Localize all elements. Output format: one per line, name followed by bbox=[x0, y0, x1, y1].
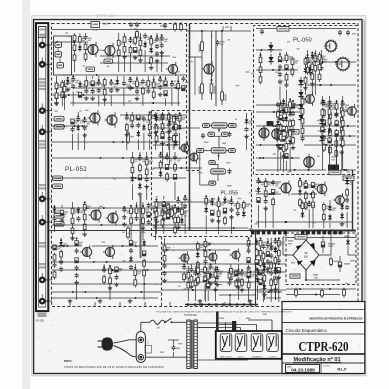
jack J8 speaker R bbox=[39, 294, 52, 304]
PL-050 upper component chain R87 bbox=[278, 52, 286, 100]
audio left component chain R108 bbox=[59, 238, 67, 272]
jack J6 tape out bbox=[39, 215, 52, 225]
transistor Q26 bbox=[207, 251, 218, 264]
wire bridge top bbox=[305, 229, 307, 240]
PCB outline main dashed box bbox=[52, 24, 359, 307]
FM IF left component chain R44 bbox=[161, 112, 165, 139]
audio right component chain R115 bbox=[247, 237, 251, 302]
transistor Q9 bbox=[106, 211, 119, 226]
title block model CTPR-620 bbox=[299, 340, 349, 355]
transformer label bbox=[184, 314, 197, 317]
PL-050 lower wire row bbox=[304, 144, 356, 146]
PL-050 lower component chain R93 bbox=[279, 100, 287, 170]
PCB outline PL-055 dashed box bbox=[152, 111, 252, 237]
audio right component chain R119 bbox=[277, 237, 285, 302]
AM tuner upper component chain R1 bbox=[73, 33, 76, 72]
AM tuner lower component chain R19 bbox=[90, 76, 98, 101]
left margin comps component chain R67 bbox=[54, 81, 59, 105]
hres H1 bbox=[288, 130, 299, 135]
FM IF mid wire row bbox=[52, 157, 186, 159]
transistor Q19 bbox=[304, 154, 314, 170]
pl55 right more component chain R162 bbox=[244, 113, 252, 150]
audio right wire row bbox=[162, 249, 230, 251]
PL-055 lower component chain R81 bbox=[216, 196, 224, 234]
panel label ANT AM-FM bbox=[39, 78, 45, 90]
title block modification bbox=[293, 357, 341, 363]
coil L2 bbox=[55, 52, 62, 58]
top hanging comps bbox=[103, 22, 182, 39]
B+ bus bbox=[120, 230, 356, 232]
jack J4 phono R bbox=[39, 125, 52, 135]
FM IF left wire row bbox=[52, 125, 88, 127]
label box LB1 bbox=[54, 117, 64, 130]
decoder vwire B bbox=[211, 31, 213, 100]
AM tuner lower component chain R17 bbox=[78, 81, 86, 98]
mains lower wire bbox=[145, 340, 186, 357]
AM tuner lower component chain R22 bbox=[109, 79, 117, 106]
audio bottom bus bbox=[185, 303, 258, 306]
PL-050 dense right component chain R158 bbox=[341, 96, 349, 170]
right mid lower band component chain R135 bbox=[340, 203, 345, 226]
AM tuner lower component chain R27 bbox=[141, 79, 149, 106]
audio lower right component chain R149 bbox=[262, 263, 270, 300]
power wires right bbox=[330, 229, 356, 255]
audio right wire row bbox=[162, 263, 286, 265]
audio lower right component chain R148 bbox=[255, 268, 259, 300]
PL-055 lower component chain R83 bbox=[229, 196, 237, 234]
audio lower right component chain R146 bbox=[229, 264, 237, 282]
PL-050 right upper component chain R90 bbox=[306, 50, 309, 75]
PL-050 dense mid component chain R152 bbox=[281, 98, 286, 172]
PL-055 lower component chain R78 bbox=[183, 195, 191, 234]
FM IF lower component chain R64 bbox=[166, 202, 174, 219]
PL-050 dense right component chain R157 bbox=[335, 101, 339, 171]
ground rail marks bbox=[68, 299, 253, 303]
FM IF left component chain R37 bbox=[82, 117, 90, 150]
AM tuner lower component chain R25 bbox=[128, 77, 136, 91]
audio right wire row bbox=[162, 289, 286, 291]
AM tuner upper wire row bbox=[100, 55, 170, 57]
note heading bbox=[64, 359, 72, 363]
transformer secondary wires bbox=[197, 323, 248, 360]
PL-055 left wire row bbox=[153, 167, 202, 169]
PL-050 lower wire row bbox=[300, 125, 356, 127]
FM IF left component chain R40 bbox=[136, 115, 144, 150]
sheet border bbox=[34, 20, 362, 374]
svg-text:TRILHAS EM LINHA GROSSA INDICA: TRILHAS EM LINHA GROSSA INDICAM LIGAÇÕES… bbox=[156, 310, 292, 313]
right mid component chain R100 bbox=[257, 178, 265, 228]
PL-055 lower component chain R79 bbox=[204, 195, 212, 234]
audio lower left component chain R138 bbox=[114, 267, 122, 286]
left margin comps component chain R68 bbox=[62, 80, 70, 110]
diode D8 bbox=[319, 116, 324, 127]
box filter 208 bbox=[277, 27, 289, 32]
FM IF mid component chain R50 bbox=[144, 152, 152, 200]
phono jack INPUT bbox=[235, 334, 247, 359]
bus vertical lower center bbox=[255, 231, 257, 307]
PL-055 left component chain R72 bbox=[160, 114, 168, 165]
top hanging comps D bbox=[223, 26, 231, 31]
PCB outline power-supply dashed box bbox=[286, 233, 356, 285]
right mid wire row bbox=[256, 181, 281, 183]
diode D601 bbox=[344, 236, 350, 246]
panel bottom bar bbox=[38, 313, 47, 318]
AM tuner upper wire row bbox=[62, 74, 186, 76]
FM IF lower component chain R60 bbox=[141, 202, 149, 240]
capacitor C603 bbox=[338, 256, 350, 272]
transformer primary bbox=[187, 320, 190, 369]
PL-050 lower component chain R99 bbox=[340, 100, 348, 170]
FM IF left component chain R43 bbox=[153, 112, 161, 150]
audio lower left wire row bbox=[52, 291, 161, 293]
AM tuner upper component chain R6 bbox=[129, 37, 137, 72]
audio left component chain R110 bbox=[129, 238, 137, 270]
PL-055 left wire row bbox=[153, 127, 200, 129]
AM tuner upper component chain R11 bbox=[155, 33, 163, 72]
audio under transistors component chain R123 bbox=[187, 266, 190, 301]
label PL-052 bbox=[65, 166, 87, 173]
PL-050 lower component chain R94 bbox=[284, 100, 292, 170]
right mid wire row bbox=[256, 221, 352, 223]
audio left wire row bbox=[52, 283, 161, 285]
output jack strip box bbox=[216, 331, 282, 359]
phono jack OUTPUT bbox=[267, 334, 279, 359]
right mid component chain R106 bbox=[345, 177, 353, 228]
PL-050 lower wire row bbox=[341, 169, 356, 171]
audio under transistors component chain R128 bbox=[235, 271, 243, 288]
audio under transistors component chain R124 bbox=[194, 266, 202, 301]
AM tuner lower component chain R31 bbox=[164, 76, 167, 106]
FM IF lower component chain R57 bbox=[122, 206, 130, 226]
tall pill P1 bbox=[127, 131, 130, 144]
PL-050 upper wire row bbox=[256, 69, 298, 71]
audio lower right component chain R141 bbox=[189, 264, 197, 289]
diode D4 bbox=[298, 77, 303, 88]
AM tuner lower wire row bbox=[52, 94, 140, 96]
PL-055 left wire row bbox=[153, 144, 179, 146]
audio lower right component chain R144 bbox=[208, 263, 216, 285]
dark label blob bbox=[267, 121, 274, 126]
transistor Q10 bbox=[179, 142, 190, 155]
hres H2 bbox=[329, 170, 341, 174]
top rail center bbox=[187, 30, 252, 32]
transistor Q22 bbox=[333, 193, 344, 207]
audio under transistors component chain R126 bbox=[213, 266, 221, 301]
audio lower left component chain R136 bbox=[102, 264, 106, 284]
AM tuner lower component chain R26 bbox=[135, 76, 143, 101]
phono jack SPEAKERS bbox=[251, 334, 263, 359]
AM tuner lower component chain R21 bbox=[102, 77, 107, 106]
power left strip component chain R122 bbox=[273, 238, 281, 300]
decoder vwire A bbox=[201, 31, 203, 100]
fuse F1 1A bbox=[150, 320, 165, 329]
top rail PL-050 bbox=[256, 28, 356, 30]
PL-050 lower component chain R95 bbox=[291, 100, 299, 150]
scan veil bbox=[34, 20, 362, 373]
decoder vwire C bbox=[221, 31, 223, 105]
audio left wire row bbox=[52, 245, 82, 247]
scattered value labels bbox=[54, 28, 350, 290]
wire bridge bottom bbox=[305, 270, 340, 281]
right mid component chain R103 bbox=[298, 178, 306, 208]
panel label PHONO bar bbox=[39, 242, 45, 248]
PL-050 right upper component chain R91 bbox=[314, 50, 322, 95]
decoder vertical wire bbox=[215, 31, 217, 106]
power under resistors bbox=[295, 288, 346, 299]
audio lower left wire row bbox=[52, 269, 161, 271]
FM IF left component chain R38 bbox=[125, 112, 133, 150]
AM tuner lower component chain R34 bbox=[181, 76, 185, 91]
diode D1 bbox=[268, 42, 273, 53]
IF row boxes bbox=[197, 123, 236, 185]
right mid component chain R102 bbox=[271, 180, 279, 228]
switch link bbox=[145, 341, 152, 353]
connector dark feed bbox=[216, 312, 219, 332]
wire feed INPUT bbox=[197, 328, 240, 332]
tall pill P2 bbox=[127, 226, 130, 239]
AM tuner lower wire row bbox=[70, 102, 180, 104]
transformer secondary bbox=[194, 320, 197, 369]
transistor Q2 bbox=[103, 43, 116, 58]
diode D7 bbox=[298, 112, 303, 123]
switch contact row A bbox=[251, 231, 287, 235]
audio lower left component chain R137 bbox=[108, 265, 116, 300]
FM IF lower component chain R58 bbox=[130, 205, 138, 240]
transistor Q4 bbox=[202, 62, 215, 77]
AM tuner lower component chain R28 bbox=[146, 76, 154, 94]
audio right component chain R117 bbox=[261, 244, 269, 302]
PL-050 dense right component chain R154 bbox=[301, 96, 309, 142]
capacitor C602 2200uF bbox=[321, 236, 335, 253]
scan speckle bbox=[36, 21, 363, 371]
PL-050 lower wire row bbox=[256, 144, 284, 146]
transistor Q17 bbox=[272, 126, 282, 142]
left margin comps3 component chain R69 bbox=[53, 205, 61, 232]
heavy grey bus bbox=[140, 196, 142, 258]
FM IF mid component chain R51 bbox=[159, 152, 167, 178]
transistor Q11 bbox=[188, 151, 199, 164]
PL-055 lower component chain R82 bbox=[223, 196, 231, 226]
PL-050 lower component chain R98 bbox=[334, 100, 338, 170]
PL-050 upper component chain R86 bbox=[259, 52, 262, 84]
audio lower right wire row bbox=[162, 271, 286, 273]
wire bridge right bbox=[286, 238, 356, 256]
PL-055 left component chain R73 bbox=[168, 113, 176, 165]
wire audio verticals bbox=[70, 302, 250, 307]
coil L2b bbox=[57, 48, 64, 69]
FM IF lower component chain R65 bbox=[174, 204, 182, 234]
PL-050 upper component chain R88 bbox=[285, 52, 293, 100]
top rail PL-052 bbox=[52, 29, 186, 31]
transistor Q16 bbox=[259, 125, 269, 141]
AM tuner lower wire row bbox=[74, 87, 186, 89]
audio lower left component chain R139 bbox=[134, 264, 142, 287]
label PL-055 bbox=[221, 190, 239, 196]
transistor Q15 bbox=[303, 92, 314, 106]
capacitor across mains bbox=[160, 343, 183, 353]
audio right component chain R113 bbox=[196, 241, 204, 275]
PL-050 dense mid wire row bbox=[256, 111, 300, 113]
panel label TAPE bbox=[39, 184, 45, 190]
top hanging box A bbox=[91, 22, 100, 31]
AM tuner lower component chain R18 bbox=[84, 76, 92, 100]
decoder resistor CB2 bbox=[199, 82, 204, 95]
audio right component chain R116 bbox=[255, 238, 259, 277]
title block banner bbox=[310, 315, 363, 320]
PL-050 right col component chain R160 bbox=[310, 52, 318, 95]
diode D3 bbox=[307, 65, 312, 76]
PL-055 lower wire row bbox=[153, 201, 212, 203]
PCB outline lower-left dashed edge bbox=[161, 237, 163, 307]
PL-055 lower wire row bbox=[153, 227, 248, 229]
right mid lower band component chain R133 bbox=[322, 202, 330, 228]
audio under transistors component chain R125 bbox=[207, 271, 215, 301]
PCB outline PL-050 dashed box bbox=[254, 26, 358, 175]
AM tuner upper wire row bbox=[52, 41, 88, 43]
diode D6 bbox=[298, 101, 303, 112]
FM IF mid component chain R53 bbox=[173, 152, 181, 200]
audio under transistors component chain R127 bbox=[228, 269, 236, 285]
audio left component chain R111 bbox=[142, 239, 146, 300]
coil shield box bbox=[54, 36, 72, 75]
AM tuner upper component chain R2 bbox=[78, 33, 86, 52]
wire feed OUTPUT bbox=[248, 320, 272, 331]
audio right wire row bbox=[162, 243, 258, 245]
AM tuner upper component chain R10 bbox=[149, 35, 157, 70]
PL-050 dense right wire row bbox=[300, 135, 356, 137]
PL-050 lower component chain R97 bbox=[328, 100, 336, 155]
transistor Q14 bbox=[335, 57, 351, 72]
decoder junction bbox=[201, 30, 223, 81]
audio under transistors component chain R129 bbox=[240, 269, 248, 292]
decoder capacitor bbox=[216, 40, 225, 46]
audio left component chain R107 bbox=[53, 245, 61, 280]
diode D5 bbox=[298, 89, 303, 100]
AM tuner lower component chain R33 bbox=[177, 76, 180, 106]
audio under transistors component chain R130 bbox=[247, 266, 255, 290]
IF row connecting wires bbox=[197, 126, 232, 187]
audio lower right component chain R140 bbox=[182, 264, 190, 282]
label box LB3 bbox=[54, 214, 64, 227]
diode D2 bbox=[268, 54, 273, 65]
FM IF left wire row bbox=[120, 114, 186, 116]
FM IF left component chain R45 bbox=[167, 112, 175, 150]
AM tuner lower component chain R29 bbox=[152, 76, 160, 100]
PL-050 dense right component chain R156 bbox=[328, 96, 336, 170]
FM IF left component chain R47 bbox=[178, 112, 186, 150]
PL-050 lower wire row bbox=[256, 125, 284, 127]
audio lower right component chain R142 bbox=[197, 264, 205, 285]
AM tuner lower component chain R30 bbox=[158, 76, 166, 97]
FM IF mid component chain R49 bbox=[138, 152, 146, 196]
bus vertical right bbox=[352, 170, 354, 231]
power under wires bbox=[286, 288, 356, 296]
power left strip component chain R121 bbox=[266, 238, 274, 274]
audio lower right wire row bbox=[162, 281, 255, 283]
transistor Q25 bbox=[179, 252, 190, 265]
dark junction block bbox=[232, 321, 236, 331]
thermal box bbox=[290, 274, 300, 278]
transistor Q27 bbox=[230, 249, 241, 262]
title block drafter bbox=[321, 363, 347, 374]
FM IF lower component chain R61 bbox=[147, 203, 155, 226]
AM tuner lower component chain R23 bbox=[115, 76, 120, 92]
AM tuner upper component chain R9 bbox=[143, 33, 151, 72]
transistor Q23 bbox=[80, 245, 92, 259]
transformer core bbox=[191, 320, 192, 369]
transistor Q7 bbox=[105, 113, 118, 128]
title block outer box bbox=[282, 302, 365, 374]
PL-050 right upper wire row bbox=[305, 84, 356, 86]
panel label PL-051 bbox=[36, 319, 45, 323]
decoder resistor CB3 bbox=[210, 82, 216, 95]
switch contact row B bbox=[301, 231, 342, 235]
phono jack LINE OUTPUT bbox=[220, 334, 233, 359]
FM IF lower component chain R56 bbox=[82, 201, 90, 236]
wire feed LINE OUTPUT bbox=[141, 322, 226, 331]
FM IF mid component chain R48 bbox=[130, 152, 138, 200]
wire bridge left bbox=[283, 237, 293, 255]
bridge rectifier SE-600 bbox=[293, 240, 319, 270]
AM tuner upper component chain R5 bbox=[122, 33, 127, 72]
transistor Q6 bbox=[88, 111, 101, 126]
PL-055 left component chain R74 bbox=[174, 113, 182, 147]
transistor Q20 bbox=[279, 181, 292, 196]
fine print row bbox=[156, 310, 292, 313]
audio lower right component chain R145 bbox=[215, 266, 223, 286]
FM IF lower wire row bbox=[52, 224, 186, 226]
right mid lower band component chain R134 bbox=[328, 200, 336, 228]
labels above jack box bbox=[219, 314, 267, 320]
transistor Q12 bbox=[164, 207, 175, 220]
PL-055 lower component chain R75 bbox=[154, 198, 162, 234]
PL-050 right col component chain R159 bbox=[303, 57, 311, 96]
PL-050 lower wire row bbox=[256, 104, 300, 106]
audio left wire row bbox=[92, 245, 158, 247]
audio lower right component chain R147 bbox=[236, 264, 244, 300]
right mid lower band component chain R132 bbox=[307, 201, 315, 228]
title block row lines bbox=[282, 310, 365, 364]
PL-055 lower component chain R77 bbox=[176, 196, 184, 230]
AM tuner upper component chain R4 bbox=[117, 33, 125, 72]
decoder wire H bbox=[188, 57, 202, 95]
FM IF lower component chain R54 bbox=[70, 202, 78, 240]
right mid component chain R101 bbox=[263, 178, 271, 228]
decoder resistor CB1 bbox=[199, 40, 204, 53]
diode D9 bbox=[319, 133, 324, 144]
FM IF lower wire row bbox=[52, 207, 186, 209]
jack J5 tape in bbox=[39, 192, 52, 202]
AM tuner lower component chain R16 bbox=[71, 76, 79, 107]
power box labels bbox=[288, 240, 355, 276]
PL-050 dense right component chain R155 bbox=[320, 96, 328, 170]
faint pencil note top margin bbox=[96, 14, 115, 18]
PL-050 right col component chain R161 bbox=[318, 52, 326, 82]
FM IF left component chain R42 bbox=[148, 111, 156, 150]
FM IF lower component chain R63 bbox=[161, 208, 169, 228]
label box LB2 bbox=[53, 176, 63, 189]
wire feed SPEAKERS bbox=[216, 325, 257, 332]
PL-050 upper component chain R89 bbox=[291, 57, 299, 77]
sheet border outer grey bbox=[32, 16, 366, 376]
PL-050 right upper component chain R92 bbox=[319, 50, 327, 71]
right mid wire row bbox=[256, 193, 281, 195]
PL-050 right col wire row bbox=[305, 61, 356, 63]
PL-055 lower component chain R80 bbox=[210, 198, 218, 223]
AM tuner upper component chain R7 bbox=[133, 33, 138, 60]
audio lower right component chain R150 bbox=[273, 264, 281, 300]
wire interlock to fuse bbox=[141, 322, 150, 331]
